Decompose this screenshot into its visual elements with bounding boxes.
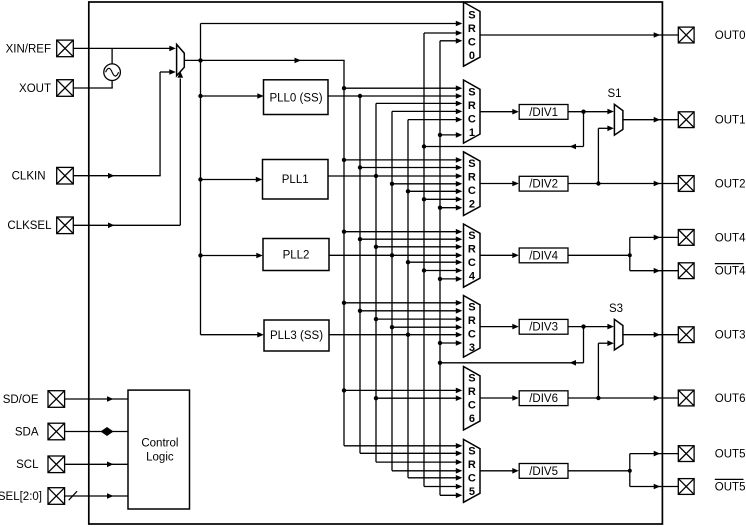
output pad OUT5 complement [678,479,694,495]
svg-text:S: S [468,373,475,385]
mux SRC4 [464,224,481,287]
wire PLL0 input [201,95,262,97]
wire PLL1 input [201,179,260,181]
svg-text:SCL: SCL [16,459,39,471]
node REF junction [198,58,202,62]
svg-text:Logic: Logic [146,452,174,464]
wire SD/OE to control logic [65,398,128,400]
wire /DIV6 output to OUT6 [568,397,678,399]
wire /DIV3 output to S3 [568,326,612,328]
node FB2 bus junction y=278.9 [438,277,442,281]
wire XIN/REF pad to input mux [73,47,173,49]
wire feedback FB1 from /DIV1 [583,112,585,147]
wire SCL to control logic [65,463,128,465]
divider /DIV4 [519,248,568,263]
svg-text:S1: S1 [607,88,621,100]
output pad OUT4 [678,230,694,246]
wire mux output (REF net) [184,59,344,61]
wire stub x=392 to SRC input y=327.2 [392,326,460,328]
svg-text:PLL3 (SS): PLL3 (SS) [270,330,323,342]
wire OUT4 splitter vertical [629,237,631,270]
wire stub x=376 to SRC input y=398.2 [376,397,460,399]
node REF bus junction y=390.4 [342,388,346,392]
node PLL1 bus junction y=319.1 [374,317,378,321]
svg-text:OUT4: OUT4 [715,266,746,278]
PLL3 (SS) block [264,320,329,351]
svg-text:PLL2: PLL2 [283,250,310,262]
node PLL0 bus junction y=96.0 [358,94,362,98]
svg-text:1: 1 [469,127,475,139]
node FB2 bus junction y=207.7 [438,206,442,210]
svg-text:PLL1: PLL1 [282,174,309,186]
svg-text:C: C [468,185,476,197]
mux SRC2 [464,152,481,216]
mux S3 [614,319,623,350]
wire stub x=408 to SRC input y=191.3 [408,190,460,192]
svg-text:/DIV6: /DIV6 [529,393,558,405]
svg-text:C: C [468,328,476,340]
output pad OUT0 [678,27,694,43]
control logic block [128,390,190,509]
wire SRC5 output to /DIV5 [480,470,516,472]
wire stub x=344 to SRC input y=159.9 [344,159,460,161]
svg-text:R: R [468,243,476,255]
PLL0 bus vertical [359,96,361,453]
svg-text:OUT2: OUT2 [715,179,746,191]
wire feedback FB2 from /DIV3 [583,327,585,363]
node PLL3 bus junction y=262.2 [406,260,410,264]
wire stub x=376 to SRC input y=103.4 [376,102,460,104]
wire PLL2 output to SRC4 [329,254,460,256]
wire stub x=376 to SRC input y=462.1 [376,461,460,463]
svg-text:C: C [468,400,476,412]
wire stub x=424 to SRC input y=33.0 [424,32,460,34]
mux S1 [614,104,623,135]
wire SRC2 output to /DIV2 [480,183,516,185]
svg-text:OUT3: OUT3 [715,330,746,342]
output pad OUT6 [678,390,694,406]
node PLL3 bus junction y=191.3 [406,189,410,193]
output pad OUT5 [678,446,694,462]
FB1 bus vertical [423,33,425,487]
svg-text:S: S [468,158,475,170]
svg-text:2: 2 [469,199,475,211]
input pad SDA [48,423,65,440]
wire stub x=424 to SRC input y=199.3 [424,198,460,200]
wire crystal bottom stub [111,80,113,88]
svg-text:OUT6: OUT6 [715,393,746,405]
node /DIV1 output junction [581,110,585,114]
wire OUT4 true branch [630,236,678,238]
wire S3 input2 from OUT6 net [598,342,611,344]
wire stub x=360 to SRC input y=453.3 [360,452,460,454]
wire PLL3 input [201,334,262,336]
wire SDA to control logic (bidirectional) [65,431,128,433]
svg-text:OUT5: OUT5 [715,449,746,461]
wire OUT5 splitter vertical [629,454,631,487]
svg-text:/DIV2: /DIV2 [529,179,558,191]
node FB1 bus junction y=199.3 [422,197,426,201]
output pad OUT2 [678,176,694,192]
mux SRC0 [464,2,481,66]
input pad CLKSEL [57,217,74,234]
svg-text:3: 3 [469,342,475,354]
wire stub x=440 to SRC input y=134.9 [440,134,460,136]
wire stub x=344 to SRC input y=302.8 [344,302,460,304]
svg-text:S: S [468,301,475,313]
node FB1 bus junction y=270.5 [422,268,426,272]
wire PLL1 output to SRC2 [328,175,460,177]
svg-text:6: 6 [469,413,475,425]
divider /DIV1 [519,105,568,120]
wire OUT4 complement branch [630,270,678,272]
wire /DIV4 output to splitter [568,254,630,256]
node REF bus junction y=231.7 [342,230,346,234]
svg-text:SD/OE: SD/OE [3,394,39,406]
node REF bus junction y=302.8 [342,301,346,305]
input pad CLKIN [57,167,74,184]
node OUT2 net junction to S1 [596,181,600,185]
svg-text:Control: Control [141,438,178,450]
wire stub x=408 to SRC input y=477.8 [408,477,460,479]
input clock mux [177,44,185,75]
bus slash on SEL[2:0] [69,491,77,500]
svg-text:PLL0 (SS): PLL0 (SS) [269,92,322,104]
divider /DIV3 [519,319,568,334]
wire stub x=392 to SRC input y=111.4 [392,110,460,112]
svg-text:5: 5 [469,486,475,498]
wire stub x=360 to SRC input y=310.8 [360,310,460,312]
wire PLL0 output to SRC1 [329,95,460,97]
wire REF riser to SRC0 [200,24,202,61]
wire OUT5 complement branch [630,486,678,488]
PLL2 bus vertical [391,111,393,470]
svg-text:OUT0: OUT0 [715,30,746,42]
node /DIV3 output junction [581,324,585,328]
wire stub x=392 to SRC input y=470.8 [392,470,460,472]
svg-text:C: C [468,37,476,49]
svg-text:XOUT: XOUT [19,83,51,95]
wire stub x=344 to SRC input y=88.2 [344,87,460,89]
output pad OUT1 [678,112,694,128]
crystal oscillator symbol [104,64,121,81]
wire OUT5 true branch [630,453,678,455]
svg-text:C: C [468,113,476,125]
node PLL1 bus junction y=176.0 [374,174,378,178]
wire stub x=376 to SRC input y=246.8 [376,246,460,248]
wire stub x=392 to SRC input y=183.8 [392,183,460,185]
divider /DIV2 [519,176,568,191]
output pad OUT4 complement [678,263,694,279]
node PLL0 bus junction y=310.8 [358,309,362,313]
svg-text:S: S [468,445,475,457]
svg-text:R: R [468,315,476,327]
input pad SD/OE [48,391,65,408]
wire XOUT pad to crystal [73,87,112,89]
input pad XOUT [57,80,74,97]
svg-text:R: R [468,386,476,398]
mux SRC6 [464,367,481,431]
input pad XIN/REF [57,40,74,57]
wire stub x=408 to SRC input y=262.2 [408,261,460,263]
wire stub x=440 to SRC input y=207.7 [440,207,460,209]
wire SRC1 output to /DIV1 [480,111,516,113]
svg-text:SDA: SDA [15,426,39,438]
input pad SEL[2:0] [48,488,65,505]
svg-text:4: 4 [469,270,476,282]
node FB2 bus junction y=362.8 [438,361,442,365]
wire stub x=424 to SRC input y=270.5 [424,270,460,272]
svg-text:R: R [468,172,476,184]
svg-text:0: 0 [469,50,475,62]
wire SRC6 output to /DIV6 [480,397,516,399]
svg-text:S: S [468,10,475,22]
node PLL2 bus junction y=327.2 [390,325,394,329]
svg-text:XIN/REF: XIN/REF [6,43,51,55]
node REF bus junction y=88.2 [342,86,346,90]
wire SRC0 output to OUT0 [480,34,678,36]
wire CLKSEL to input mux select [73,224,180,226]
wire stub x=440 to SRC input y=343.0 [440,342,460,344]
wire stub x=440 to SRC input y=278.9 [440,278,460,280]
chip boundary box [89,2,663,524]
wire stub x=424 to SRC input y=486.5 [424,486,460,488]
node PLL0 bus junction y=239.2 [358,237,362,241]
wire stub x=440 to SRC input y=40.8 [440,40,460,42]
wire S3 output to OUT3 [623,334,678,336]
svg-text:OUT4: OUT4 [715,232,746,244]
svg-text:OUT5: OUT5 [715,482,746,494]
wire SEL[2:0] to control logic [65,495,128,497]
PLL3 bus vertical [407,120,409,478]
wire crystal top stub [111,48,113,64]
wire S1 output to OUT1 [623,119,678,121]
wire stub x=440 to SRC input y=495.3 [440,494,460,496]
svg-text:S3: S3 [609,303,623,315]
wire stub x=344 to SRC input y=231.7 [344,231,460,233]
wire stub x=376 to SRC input y=319.1 [376,318,460,320]
node REF bus junction y=159.9 [342,158,346,162]
svg-text:R: R [468,459,476,471]
svg-text:C: C [468,472,476,484]
mux SRC1 [464,80,481,143]
wire /DIV1 output to S1 [568,111,612,113]
svg-text:S: S [468,230,475,242]
wire stub x=360 to SRC input y=167.5 [360,167,460,169]
wire /DIV5 output to splitter [568,470,630,472]
wire SRC3 output to /DIV3 [480,326,516,328]
output pad OUT3 [678,327,694,343]
node PLL3 bus junction y=334.7 [406,333,410,337]
node FB2 bus junction y=134.9 [438,133,442,137]
svg-text:/DIV4: /DIV4 [529,250,558,262]
node FB1 bus junction y=146.5 [422,144,426,148]
node FB2 bus junction y=343.0 [438,341,442,345]
wire CLKIN to input mux [73,175,160,177]
svg-text:OUT1: OUT1 [715,115,746,127]
node PLL2 bus junction y=183.8 [390,182,394,186]
input pad SCL [48,456,65,473]
wire SRC4 output to /DIV4 [480,254,516,256]
node OUT6 net junction to S3 [596,396,600,400]
svg-text:/DIV5: /DIV5 [529,466,558,478]
divider /DIV6 [519,391,568,406]
svg-text:/DIV3: /DIV3 [529,322,558,334]
svg-text:/DIV1: /DIV1 [529,107,558,119]
REF bus vertical [343,60,345,445]
wire stub x=344 to SRC input y=445.8 [344,445,460,447]
wire PLL2 input [201,255,261,257]
divider /DIV5 [519,464,568,479]
PLL1 bus vertical [375,103,377,462]
wire stub x=344 to SRC input y=390.4 [344,389,460,391]
svg-text:CLKSEL: CLKSEL [7,220,52,232]
PLL2 block [263,239,329,271]
node PLL1 bus junction y=398.2 [374,396,378,400]
node PLL1 bus junction y=246.8 [374,245,378,249]
wire PLL3 output to SRC3 [329,334,460,336]
PLL0 (SS) block [264,80,329,115]
svg-text:SEL[2:0]: SEL[2:0] [0,491,42,503]
wire stub x=360 to SRC input y=239.2 [360,238,460,240]
wire /DIV2 output to OUT2 [568,183,678,185]
node PLL0 bus junction y=167.5 [358,165,362,169]
wire stub x=408 to SRC input y=119.6 [408,119,460,121]
node PLL2 bus junction y=255.3 [390,253,394,257]
svg-text:C: C [468,257,476,269]
svg-text:R: R [468,23,476,35]
svg-text:R: R [468,100,476,112]
wire S1 input2 from OUT2 net [598,127,611,129]
svg-text:CLKIN: CLKIN [12,171,46,183]
mux SRC3 [464,296,481,358]
wire REF feed down to PLLs [200,60,202,334]
svg-text:S: S [468,86,475,98]
FB2 bus vertical [439,41,441,496]
mux SRC5 [464,439,481,502]
PLL1 block [263,160,329,200]
